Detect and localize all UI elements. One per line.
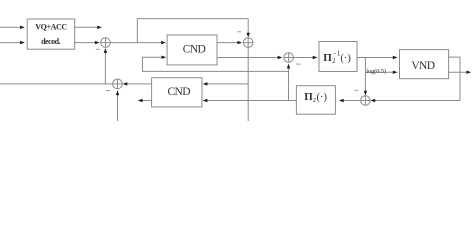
summing node S3 — [284, 53, 294, 63]
minus at S4 — [355, 89, 359, 91]
wire top feedback drop to S2 — [247, 19, 249, 34]
arrow into VQ+ACC in1 — [20, 26, 25, 29]
arrow VND main output tip — [466, 71, 471, 74]
arrow into S4 right — [370, 99, 375, 102]
arrow into CND lower in1 — [203, 82, 208, 85]
arrow into S3 bottom — [287, 64, 290, 69]
summing node S2 — [243, 38, 253, 48]
wire S3 to PI2-inverse — [293, 57, 314, 59]
arrow into S1 left — [95, 41, 100, 44]
box CND (upper) — [167, 35, 217, 65]
wire branch down to S4 — [364, 58, 366, 93]
arrow into S1 bottom — [104, 48, 107, 53]
wire VQ+ACC to S1 — [75, 42, 96, 44]
box VQ+ACC decod. — [27, 19, 74, 49]
wire riser S5 line to S1 — [104, 52, 106, 84]
minus at S1 — [96, 48, 100, 50]
svg-text:CND: CND — [183, 43, 206, 55]
wire S5 output leftward — [0, 83, 113, 85]
svg-text:decod.: decod. — [41, 37, 61, 46]
arrow into S5 right — [123, 82, 128, 85]
wire log(0.5) into VND — [365, 71, 394, 73]
wire branch to CND lower input 1 — [207, 83, 249, 85]
minus at S3 — [296, 63, 300, 65]
box PI2 — [296, 86, 335, 115]
wire CND lower out1 to S5 — [127, 83, 152, 85]
arrow into S3 left — [278, 56, 283, 59]
wire PI2 output leftward — [207, 100, 297, 102]
arrow into CND upper in1 — [161, 41, 166, 44]
minus at S2 — [237, 31, 241, 33]
svg-text:log(0.5): log(0.5) — [366, 68, 386, 75]
svg-text:VQ+ACC: VQ+ACC — [35, 23, 67, 32]
svg-text:VND: VND — [411, 60, 434, 72]
wire CND lower out2 — [142, 100, 151, 102]
summing node S1 — [101, 38, 111, 48]
wire input 1 — [0, 26, 21, 28]
wire top feedback riser — [136, 19, 138, 43]
wire VND feedback tap — [375, 57, 460, 100]
svg-text:CND: CND — [167, 86, 190, 98]
svg-text:Π2−1(·): Π2−1(·) — [323, 50, 351, 65]
arrow into VND in2 — [393, 71, 398, 74]
wire VND main output — [449, 71, 467, 73]
arrow into CND lower in2 — [203, 99, 208, 102]
wire S4 to PI2 — [340, 100, 361, 102]
wire input 2 — [0, 42, 21, 44]
wire S1 to CND upper — [110, 42, 161, 44]
minus at S5 — [106, 90, 110, 92]
wire S2 output down — [247, 47, 249, 121]
wire CND upper to S2 — [217, 42, 239, 44]
wire feedback to CND upper in2 — [143, 57, 289, 71]
arrow output 1 tip — [97, 26, 102, 29]
summing node S4 — [361, 96, 371, 106]
wire riser PI2 output to S3 — [288, 67, 290, 101]
box PI2-inverse — [319, 42, 357, 72]
arrow into S2 left — [237, 41, 242, 44]
arrow into VQ+ACC in2 — [20, 41, 25, 44]
svg-text:Π2(·): Π2(·) — [304, 91, 327, 104]
summing node S5 — [113, 79, 123, 89]
arrow into S4 top — [364, 91, 367, 96]
arrow into S5 bottom — [116, 90, 119, 95]
arrow into VND in1 — [393, 56, 398, 59]
wire S5 bottom input — [117, 93, 119, 121]
arrow into PI2-inverse — [313, 56, 318, 59]
arrow into PI2 right — [339, 99, 344, 102]
box VND — [400, 50, 449, 79]
wire top feedback horizontal — [137, 18, 248, 20]
arrow into S2 top — [247, 33, 250, 38]
wire output 1 of VQ+ACC — [75, 26, 98, 28]
wire PI2-inverse to VND — [357, 57, 395, 59]
box CND (lower) — [152, 78, 202, 107]
wire CND upper out2 to S3 — [217, 57, 280, 59]
arrow CND lower out2 tip — [138, 99, 143, 102]
arrow into CND upper in2 — [162, 56, 167, 59]
